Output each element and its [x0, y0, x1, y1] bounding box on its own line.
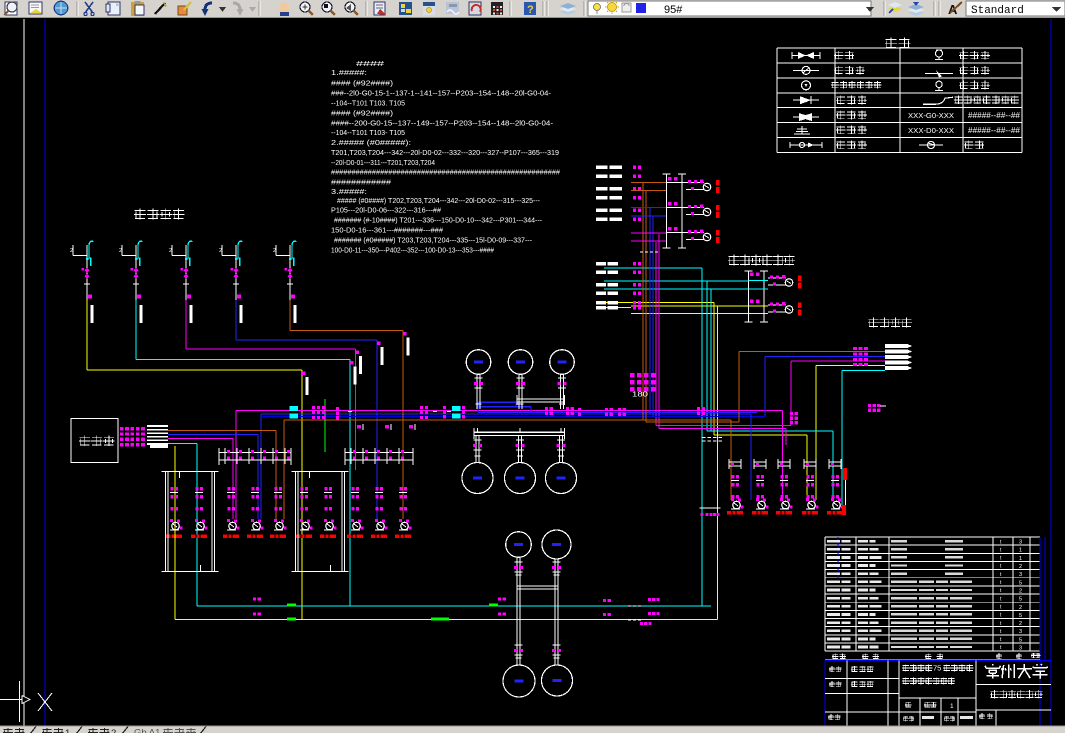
svg-text:T201,T203,T204---342---20l-D0-: T201,T203,T204---342---20l-D0-02---332--…: [331, 148, 559, 157]
svg-text:XXX-D0-XXX: XXX-D0-XXX: [908, 126, 954, 135]
svg-text:2: 2: [169, 248, 172, 254]
svg-text:##### (#0####) T202,T203,T204-: ##### (#0####) T202,T203,T204---342---20…: [337, 196, 541, 205]
svg-text:XXX-G0-XXX: XXX-G0-XXX: [908, 111, 954, 120]
svg-text:5: 5: [1019, 637, 1022, 643]
svg-text:75: 75: [933, 664, 941, 673]
svg-text:2: 2: [1019, 605, 1022, 611]
svg-text:####--200-G0-15--137--149--157: ####--200-G0-15--137--149--157--P203--15…: [331, 119, 554, 128]
svg-text:--104--T101 T103- T105: --104--T101 T103- T105: [331, 128, 405, 137]
svg-text:2: 2: [70, 248, 73, 254]
svg-text:#### (#92####): #### (#92####): [331, 109, 393, 118]
svg-text:95#: 95#: [664, 4, 683, 16]
svg-text:####: ####: [356, 59, 384, 68]
svg-text:?: ?: [527, 4, 534, 16]
svg-text:1.#####:: 1.#####:: [331, 68, 367, 77]
svg-text:5: 5: [1019, 613, 1022, 619]
svg-text:Gb A1: Gb A1: [134, 728, 160, 733]
svg-text:100-D0-11---350---P402---352--: 100-D0-11---350---P402---352---100-D0-13…: [331, 246, 494, 255]
svg-text:2: 2: [119, 248, 122, 254]
svg-text:--104--T101 T103. T105: --104--T101 T103. T105: [331, 99, 405, 108]
svg-text:150-D0-16---361---#######---##: 150-D0-16---361---#######---###: [331, 226, 443, 235]
svg-text:##############################: ########################################…: [331, 168, 560, 177]
svg-text:2: 2: [111, 728, 116, 733]
svg-text:####### (#0#####) T203,T203,T2: ####### (#0#####) T203,T203,T204---335--…: [334, 236, 533, 245]
svg-text:Standard: Standard: [971, 5, 1024, 17]
svg-text:2.##### (#0#####):: 2.##### (#0#####):: [331, 138, 411, 147]
svg-text:1: 1: [1019, 548, 1022, 554]
svg-text:#####--##--##: #####--##--##: [968, 111, 1021, 120]
svg-text:#####--##--##: #####--##--##: [968, 126, 1021, 135]
svg-text:2: 2: [1019, 588, 1022, 594]
svg-text:3: 3: [1019, 540, 1022, 546]
svg-text:2: 2: [219, 248, 222, 254]
svg-text:1: 1: [65, 728, 70, 733]
svg-text:###--2l0-G0-15-1--137-1--141--: ###--2l0-G0-15-1--137-1--141--157--P203-…: [331, 89, 552, 98]
svg-text:5: 5: [1019, 580, 1022, 586]
svg-text:3: 3: [1019, 572, 1022, 578]
svg-text:3: 3: [1019, 646, 1022, 652]
svg-text:3.#####:: 3.#####:: [331, 187, 367, 196]
svg-text:############: ############: [331, 178, 391, 187]
svg-text:1: 1: [1019, 556, 1022, 562]
svg-text:2: 2: [1019, 564, 1022, 570]
svg-text:####### (#-10####) T201---336-: ####### (#-10####) T201---336---150-D0-1…: [334, 216, 543, 225]
svg-text:--20l-D0-01---311---T201,T203,: --20l-D0-01---311---T201,T203,T204: [331, 158, 435, 167]
svg-text:1: 1: [950, 703, 954, 710]
svg-text:5: 5: [1019, 597, 1022, 603]
svg-text:180: 180: [632, 390, 648, 399]
svg-text:3: 3: [1019, 629, 1022, 635]
svg-text:#### (#92####): #### (#92####): [331, 79, 393, 88]
svg-text:P105---20l-D0-06---322---316--: P105---20l-D0-06---322---316---##: [331, 206, 441, 215]
svg-text:2: 2: [273, 248, 276, 254]
svg-text:2: 2: [1019, 621, 1022, 627]
